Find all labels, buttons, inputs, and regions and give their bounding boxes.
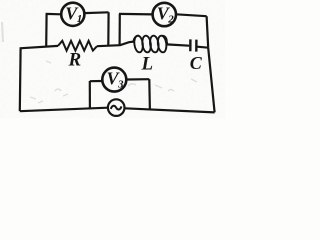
svg-text:L: L [141,53,154,74]
svg-text:C: C [190,53,203,73]
svg-text:3: 3 [117,78,124,90]
svg-text:R: R [68,50,82,71]
svg-text:1: 1 [77,13,83,25]
svg-text:2: 2 [167,13,174,25]
